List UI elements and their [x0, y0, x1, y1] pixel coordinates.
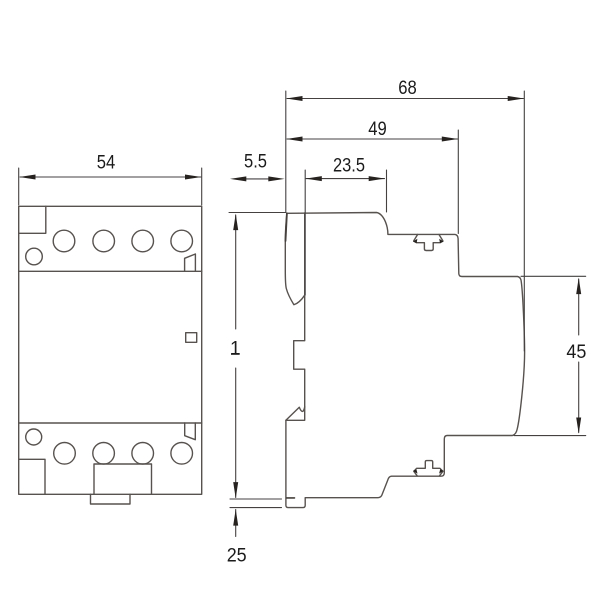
small square mid-right [186, 333, 197, 343]
top DIN clip nub [414, 235, 443, 251]
bottom nub arrowhead right [439, 469, 444, 473]
dimension 54 [19, 168, 202, 205]
tail line below [235, 510, 237, 537]
arrow bottom of 45 [576, 418, 581, 434]
small terminal circle bottom-left [26, 429, 42, 445]
triangle base lower-front [286, 407, 305, 421]
extension line left [18, 168, 20, 205]
bottom-left rectangle [19, 459, 45, 494]
body outline front view [19, 206, 202, 494]
front face object line (upper, behind beak) [304, 213, 306, 295]
dimension 1 (left height) [229, 213, 286, 498]
svg-text:68: 68 [398, 78, 417, 99]
terminal circle 4 row 1 [171, 230, 193, 252]
dim line 68 [287, 98, 524, 100]
ext line right [523, 91, 525, 351]
top nub arrowhead right [439, 239, 444, 243]
center bottom rectangle [94, 464, 152, 494]
svg-text:25: 25 [227, 546, 247, 567]
arrow right of 54 [185, 175, 201, 180]
top-left notch rectangle [19, 206, 46, 233]
svg-text:54: 54 [97, 153, 116, 174]
arrow left of 23.5 [306, 176, 322, 181]
arrow right of 49 [442, 137, 458, 142]
ext line left of 23.5 [304, 170, 306, 295]
beak outer edge emphasized [286, 213, 287, 241]
ext line upper of 25 [230, 498, 282, 500]
pennant flag top-right [185, 254, 196, 271]
serif bar of label 1 [231, 353, 240, 355]
ext line lower of 25 [230, 507, 282, 509]
dim line 45 lower segment [578, 362, 580, 433]
dimension 23.5 [305, 170, 386, 295]
arrow top of 1 [233, 214, 238, 230]
ext line right of 49 [457, 130, 459, 234]
dim line 49 [287, 138, 458, 140]
dimension 68 [286, 91, 525, 351]
dim line 1 upper segment [235, 215, 237, 329]
terminal circle 2 row 1 [93, 230, 115, 252]
arrow left of 54 [19, 175, 35, 180]
terminal circle 4 row 2 [171, 443, 193, 465]
svg-text:23.5: 23.5 [333, 156, 365, 177]
dimension 45 (right height) [514, 276, 586, 435]
ext line right of 23.5 [386, 170, 388, 212]
small terminal circle top-left [26, 248, 43, 265]
ext line top of 45 [521, 275, 586, 277]
arrow up of 25 [233, 509, 238, 525]
dim line 5.5 [244, 178, 270, 180]
arrow left of 68 [286, 96, 302, 101]
ext line bottom of 45 [514, 435, 586, 437]
ext line top (body top extended) [229, 212, 286, 214]
bottom DIN clip nub [414, 461, 443, 476]
dim line 23.5 [306, 178, 385, 180]
ext line left (top of front face) [285, 91, 287, 213]
pennant flag bottom-right [185, 423, 196, 440]
bottom tab [91, 494, 131, 504]
terminal circle 3 row 2 [132, 443, 154, 465]
svg-text:1: 1 [230, 339, 241, 360]
svg-text:49: 49 [368, 119, 387, 140]
top section separator [19, 270, 202, 272]
arrow left of 49 [286, 137, 302, 142]
arrow left of 5.5 [230, 176, 246, 181]
dimension 25 (bottom lip) [230, 499, 282, 537]
svg-text:5.5: 5.5 [244, 152, 267, 173]
dim line 45 upper segment [578, 279, 580, 335]
arrow right of 5.5 [268, 176, 284, 181]
svg-text:45: 45 [566, 342, 586, 363]
foot top tick [287, 497, 295, 499]
terminal circle 1 row 1 [53, 230, 75, 252]
dimension 49 [287, 130, 458, 234]
bottom section separator [19, 422, 202, 424]
terminal circle 3 row 1 [132, 230, 154, 252]
arrow right of 23.5 [369, 176, 385, 181]
dimension line [20, 176, 201, 178]
extension line right [201, 168, 203, 205]
terminal circle 2 row 2 [93, 443, 115, 465]
terminal circle 1 row 2 [54, 443, 76, 465]
bottom nub arrowhead left [413, 469, 418, 473]
arrow right of 68 [508, 96, 524, 101]
arrow top of 45 [576, 278, 581, 294]
side body outline [285, 213, 524, 508]
dim line 1 lower segment [235, 368, 237, 498]
dimension 5.5 [244, 178, 270, 180]
top nub arrowhead left [413, 239, 418, 243]
arrow bottom of 1 [233, 482, 238, 498]
